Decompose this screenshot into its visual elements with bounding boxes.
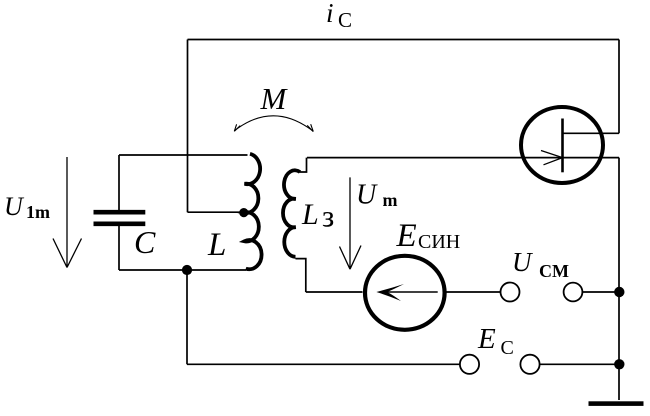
- wire tap vertical from iC rail: [187, 40, 189, 213]
- wire terminal to rail: [582, 291, 619, 293]
- label C: [134, 224, 156, 260]
- wire L3 bottom to source: [306, 291, 363, 293]
- transistor U1 circle: [521, 107, 603, 183]
- terminal circle 4 (E_c right): [520, 355, 539, 374]
- label M: [260, 81, 289, 116]
- svg-text:СМ: СМ: [539, 261, 569, 281]
- wire EC horizontal left part: [187, 363, 460, 365]
- svg-text:m: m: [383, 190, 398, 210]
- wire EC right to rail: [540, 363, 619, 365]
- svg-text:C: C: [338, 8, 352, 32]
- wire base/emitter rail y=158: [307, 157, 619, 159]
- node dot rail/Ec: [614, 359, 624, 369]
- svg-text:i: i: [326, 0, 334, 28]
- svg-text:L: L: [301, 198, 319, 231]
- svg-text:U: U: [4, 192, 25, 221]
- capacitor C plates: [94, 212, 146, 224]
- wire collector stub: [563, 132, 620, 134]
- svg-text:L: L: [207, 227, 226, 263]
- wire tap horizontal to coil L: [188, 211, 242, 213]
- inductor L3: [283, 170, 300, 256]
- node bottom junction dot: [182, 265, 192, 275]
- svg-text:з: з: [322, 199, 334, 234]
- wire from bottom junction down: [186, 270, 188, 364]
- wire L3 bottom hook: [296, 259, 306, 292]
- label Um: [356, 180, 398, 211]
- tank left wire lower: [118, 226, 120, 270]
- tank left wire upper: [118, 155, 120, 210]
- tank top rail wire: [119, 154, 248, 156]
- label L3: [301, 198, 334, 234]
- label U_cm: [512, 247, 569, 281]
- label U1m: [4, 192, 50, 222]
- label iC: [326, 0, 352, 32]
- ground: [589, 401, 644, 406]
- svg-text:1m: 1m: [26, 202, 50, 222]
- voltage arrow U1m: [53, 157, 82, 268]
- mutual inductance arrow M: [234, 116, 313, 132]
- tank bottom rail wire: [119, 269, 246, 271]
- svg-text:E: E: [396, 218, 417, 254]
- voltage arrow Um: [340, 177, 362, 269]
- source E_sin arrow: [380, 291, 438, 293]
- wire L3 top hook: [300, 158, 307, 172]
- inductor L: [244, 154, 262, 269]
- wire source to terminal: [446, 291, 501, 293]
- svg-text:СИН: СИН: [418, 231, 460, 253]
- wire top rail iC: [188, 39, 620, 41]
- label L: [207, 227, 226, 263]
- label E_sin: [396, 218, 461, 254]
- svg-text:U: U: [356, 180, 378, 211]
- transistor U1 base bar: [561, 119, 564, 173]
- node dot rail/Ucm: [614, 287, 624, 297]
- svg-text:E: E: [477, 323, 496, 355]
- terminal circle 3 (E_c left): [460, 355, 479, 374]
- transistor U1 emitter arrow: [541, 151, 563, 165]
- terminal circle 1 (U_cm left): [501, 283, 520, 302]
- source E_sin circle: [365, 256, 445, 330]
- svg-text:C: C: [501, 337, 514, 359]
- svg-text:C: C: [134, 224, 156, 260]
- svg-text:U: U: [512, 247, 533, 277]
- label E_c: [477, 323, 514, 359]
- terminal circle 2 (U_cm right): [564, 283, 583, 302]
- node tap dot: [239, 208, 248, 217]
- svg-text:M: M: [260, 81, 289, 116]
- wire right top vertical (collector riser): [618, 40, 620, 134]
- wire right rail down to ground: [618, 158, 620, 400]
